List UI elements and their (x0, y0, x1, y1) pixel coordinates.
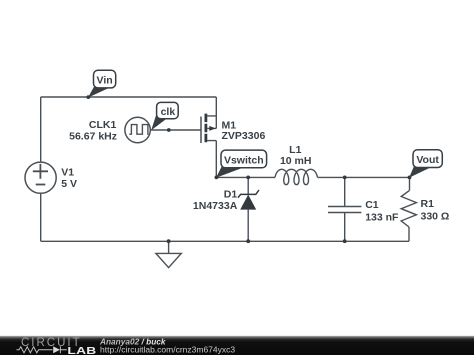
svg-text:R1: R1 (421, 198, 435, 210)
svg-text:D1: D1 (224, 188, 238, 200)
wire R1 top lead (409, 177, 411, 190)
wire inductor to Vout node (318, 176, 410, 178)
wire clk output to gate (150, 129, 201, 131)
wire D1 bottom lead (247, 210, 249, 242)
resistor R1 (401, 190, 416, 227)
svg-text:V1: V1 (61, 166, 74, 178)
svg-text:clk: clk (161, 106, 176, 118)
svg-text:5 V: 5 V (61, 178, 77, 190)
junction C1 top (343, 176, 347, 180)
svg-text:Vswitch: Vswitch (224, 154, 264, 166)
junction D1 top (246, 176, 250, 180)
svg-text:LAB: LAB (67, 344, 96, 355)
wire top rail Vin net (41, 96, 217, 98)
wire R1 bottom lead (408, 227, 410, 241)
svg-text:10 mH: 10 mH (280, 155, 312, 167)
ground (156, 241, 181, 267)
clock source CLK1 (125, 117, 150, 142)
node Vswitch flag (215, 150, 267, 179)
wire bottom ground rail (41, 240, 409, 242)
footer bar (0, 336, 474, 355)
node Vout flag (408, 150, 443, 180)
wire M1 source to top rail (215, 97, 217, 128)
node clk flag (151, 102, 178, 132)
wire Vswitch node to inductor (216, 176, 275, 178)
node Vin flag (86, 70, 115, 99)
svg-text:C1: C1 (365, 199, 379, 211)
svg-text:56.67 kHz: 56.67 kHz (69, 131, 117, 143)
svg-text:http://circuitlab.com/crnz3m67: http://circuitlab.com/crnz3m674yxc3 (100, 344, 235, 354)
svg-text:Vin: Vin (97, 75, 113, 87)
wire D1 top lead (247, 177, 249, 194)
wire M1 drain down to Vswitch node (215, 141, 217, 178)
svg-text:1N4733A: 1N4733A (193, 200, 238, 212)
capacitor C1 (328, 207, 361, 213)
svg-text:330 Ω: 330 Ω (421, 211, 450, 223)
voltage source V1 (25, 162, 56, 193)
junction ground (167, 239, 171, 243)
junction D1 bottom (246, 239, 250, 243)
svg-text:133 nF: 133 nF (365, 211, 399, 223)
wire V1 bottom lead (40, 194, 42, 242)
junction C1 bottom (343, 239, 347, 243)
wire C1 bottom lead (344, 213, 346, 242)
inductor L1 (275, 169, 318, 184)
svg-text:CLK1: CLK1 (89, 119, 117, 131)
transistor M1 PMOS (201, 114, 216, 143)
logo resistor and diode glyph (17, 346, 67, 353)
diode D1 zener (238, 190, 259, 210)
wire C1 top lead (344, 177, 346, 206)
svg-text:ZVP3306: ZVP3306 (222, 130, 266, 142)
wire V1 top lead (40, 97, 42, 162)
svg-text:Vout: Vout (416, 154, 439, 166)
